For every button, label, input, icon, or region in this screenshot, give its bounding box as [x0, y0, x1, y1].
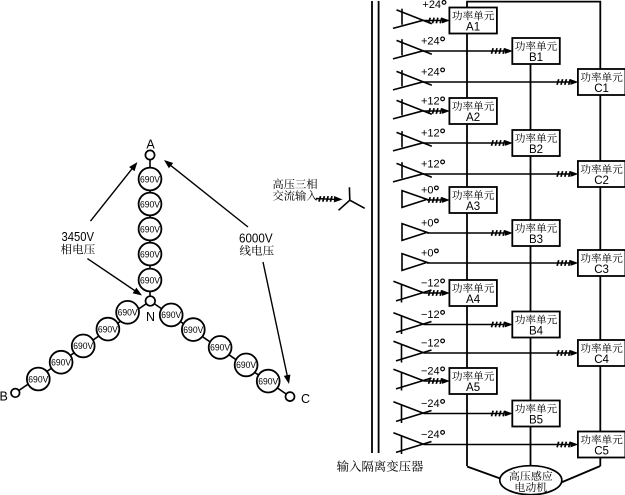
svg-text:A2: A2: [466, 112, 480, 124]
svg-text:690V: 690V: [28, 374, 49, 385]
svg-text:A1: A1: [466, 22, 480, 34]
svg-text:+12: +12: [421, 159, 440, 171]
svg-text:C3: C3: [594, 264, 609, 276]
svg-text:690V: 690V: [258, 376, 279, 387]
svg-text:+24: +24: [421, 67, 440, 79]
svg-text:B1: B1: [529, 52, 543, 64]
svg-text:690V: 690V: [161, 310, 182, 321]
svg-text:B: B: [0, 389, 8, 403]
svg-text:B5: B5: [529, 415, 543, 427]
svg-text:B3: B3: [529, 234, 543, 246]
svg-text:+0: +0: [421, 218, 434, 230]
svg-text:+12: +12: [421, 96, 440, 108]
svg-text:A5: A5: [466, 382, 480, 394]
svg-text:690V: 690V: [140, 249, 161, 260]
svg-text:−24: −24: [421, 366, 440, 378]
svg-text:690V: 690V: [236, 360, 257, 371]
svg-text:690V: 690V: [51, 358, 72, 369]
svg-text:C1: C1: [594, 83, 609, 95]
svg-text:−24: −24: [421, 398, 440, 410]
svg-text:C5: C5: [594, 446, 609, 458]
svg-text:690V: 690V: [210, 343, 231, 354]
svg-text:B4: B4: [529, 326, 544, 338]
svg-text:690V: 690V: [118, 308, 139, 319]
svg-text:690V: 690V: [140, 224, 161, 235]
svg-text:6000V: 6000V: [239, 232, 273, 246]
svg-text:690V: 690V: [98, 324, 119, 335]
svg-text:−24: −24: [421, 429, 440, 441]
svg-text:−12: −12: [421, 278, 440, 290]
svg-text:690V: 690V: [140, 174, 161, 185]
svg-text:−12: −12: [421, 309, 440, 321]
svg-text:+0: +0: [421, 185, 434, 197]
svg-text:690V: 690V: [140, 199, 161, 210]
svg-text:690V: 690V: [140, 275, 161, 286]
svg-text:+24: +24: [421, 36, 440, 48]
svg-text:B2: B2: [529, 144, 543, 156]
svg-text:+12: +12: [421, 128, 440, 140]
svg-text:C4: C4: [594, 354, 609, 366]
svg-text:N: N: [146, 310, 155, 324]
svg-text:−12: −12: [421, 338, 440, 350]
svg-text:C2: C2: [594, 175, 609, 187]
svg-text:+0: +0: [421, 248, 434, 260]
svg-text:3450V: 3450V: [62, 230, 95, 244]
svg-text:C: C: [301, 392, 310, 406]
svg-text:A3: A3: [466, 201, 480, 213]
svg-text:A: A: [146, 138, 155, 152]
svg-text:+24: +24: [422, 0, 441, 11]
svg-text:690V: 690V: [73, 341, 94, 352]
svg-text:A4: A4: [466, 294, 481, 306]
svg-text:690V: 690V: [183, 325, 204, 336]
